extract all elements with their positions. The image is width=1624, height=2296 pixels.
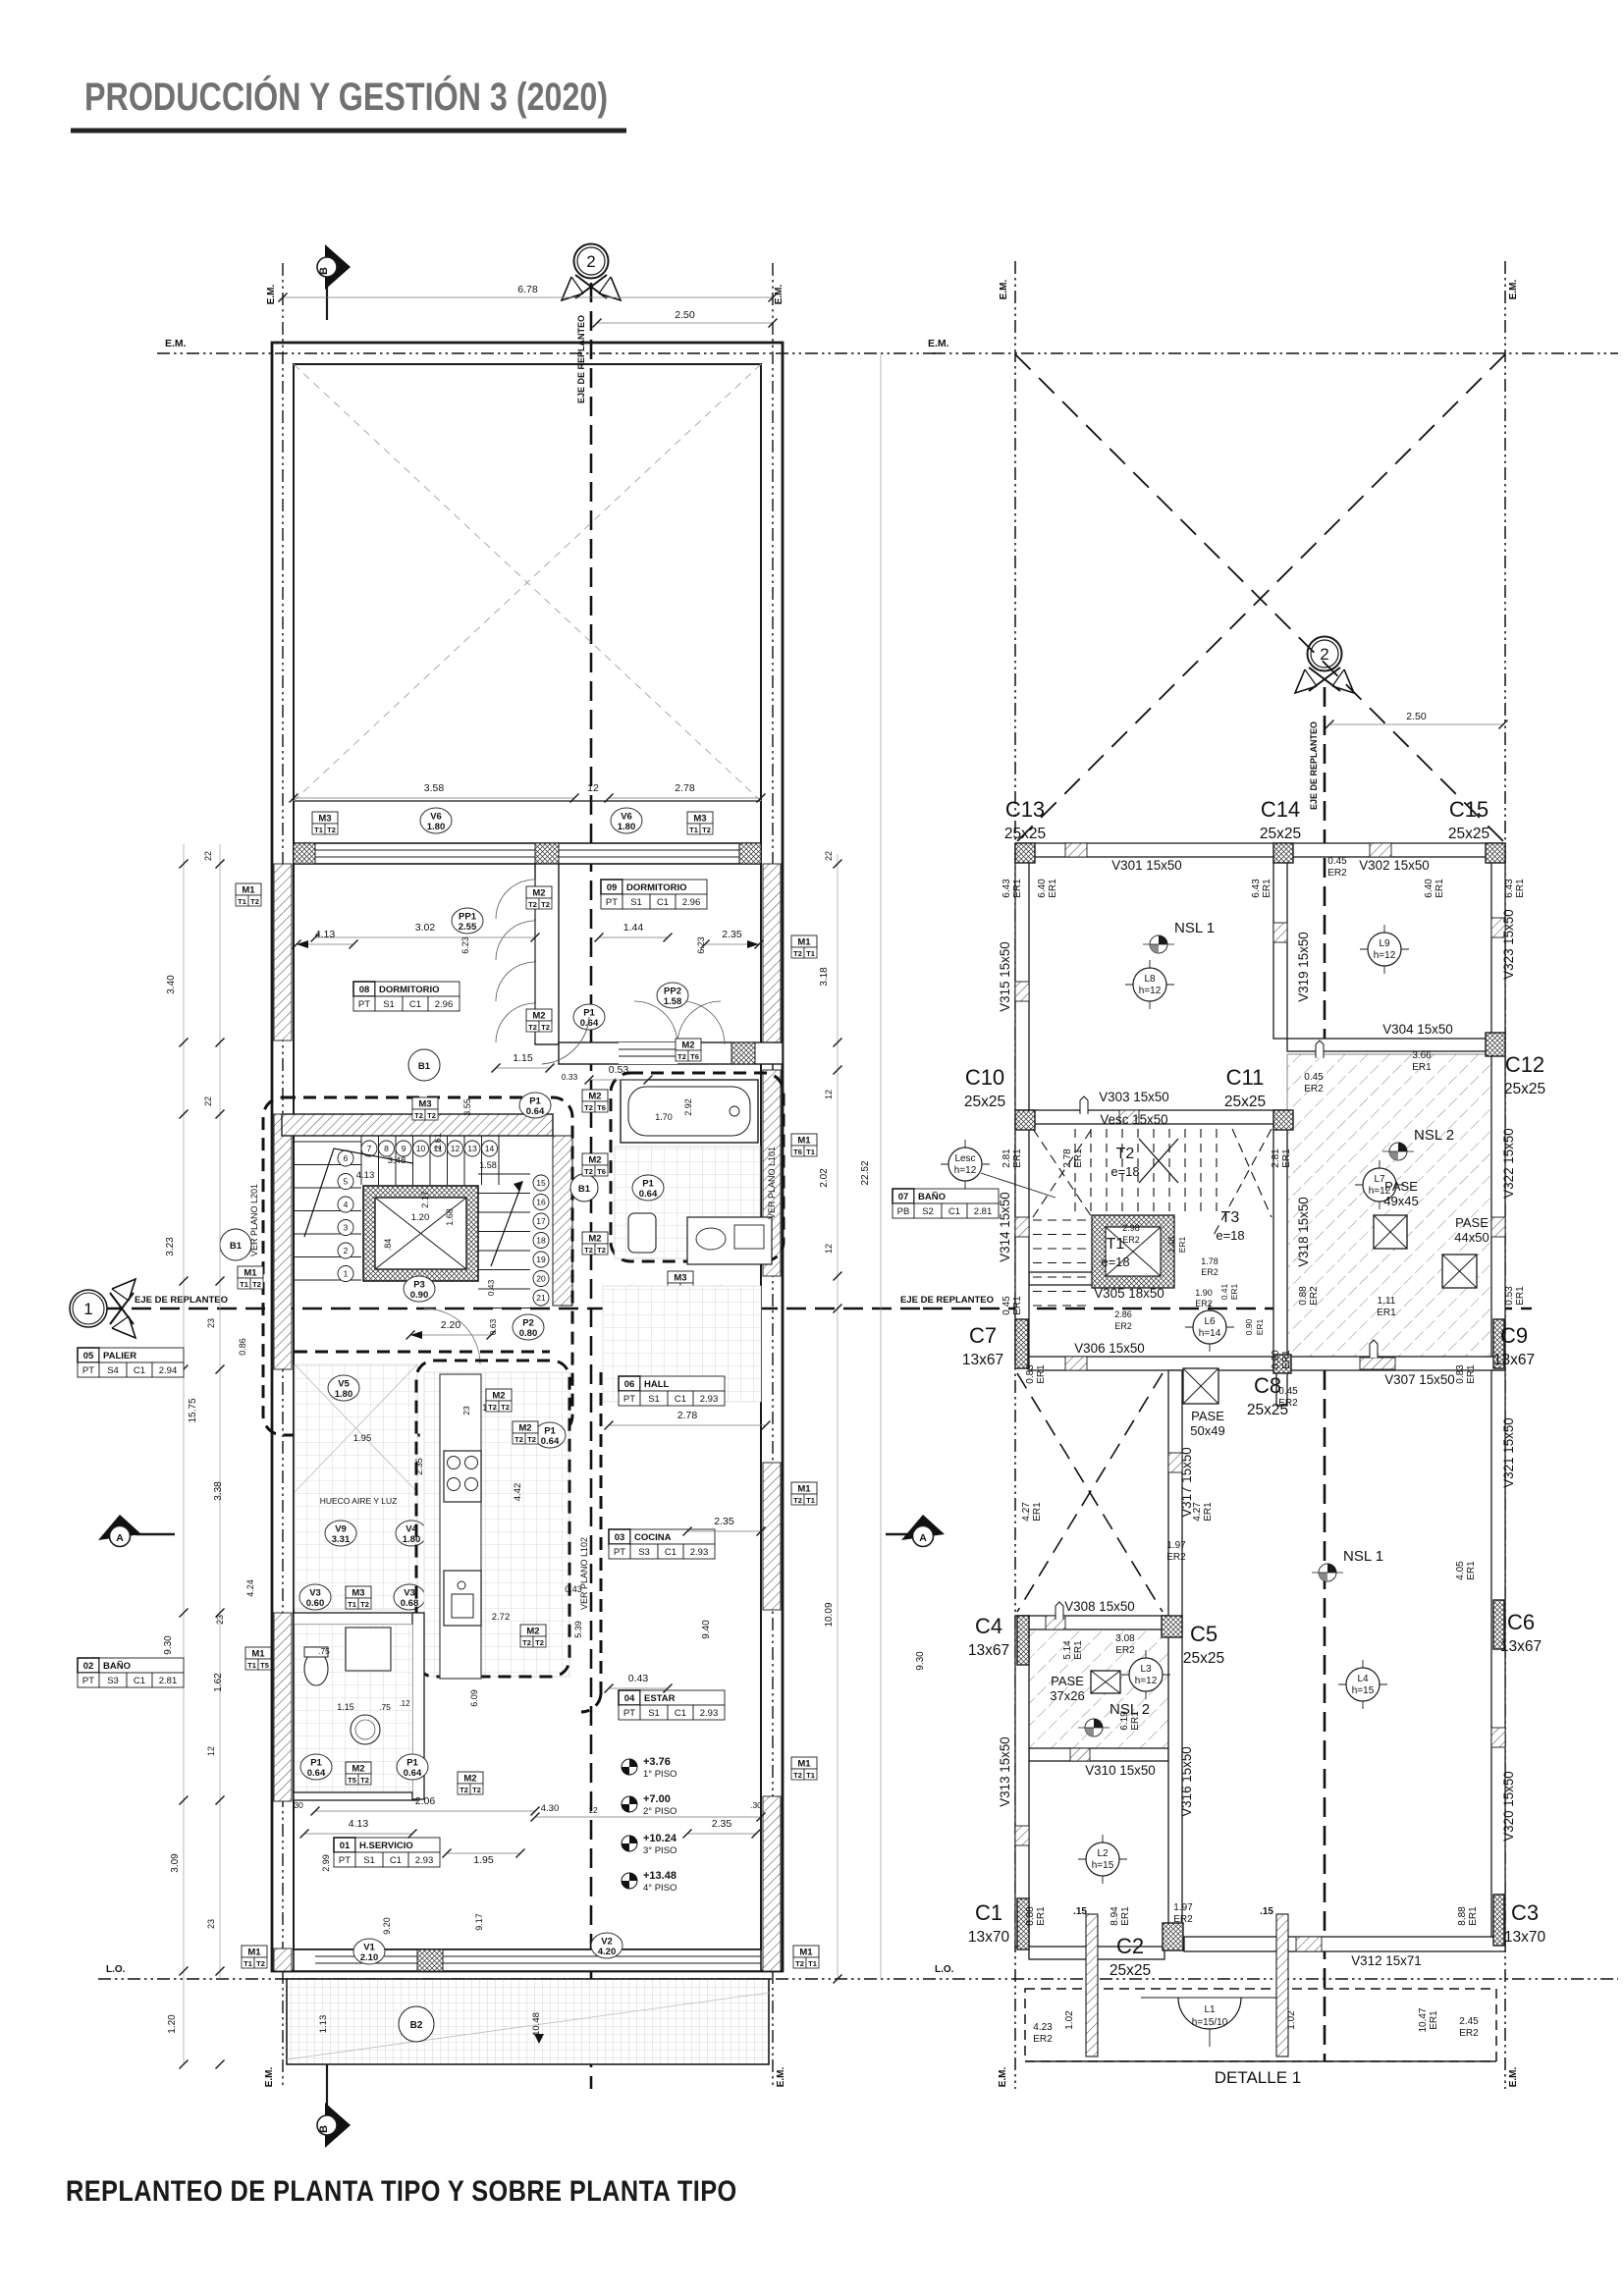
column C13 [1015, 843, 1035, 863]
svg-text:19: 19 [536, 1255, 546, 1264]
svg-text:3.08: 3.08 [1115, 1633, 1135, 1644]
column C7 [1015, 1319, 1028, 1368]
svg-text:S1: S1 [630, 897, 642, 908]
svg-text:E.M.: E.M. [776, 2067, 786, 2088]
svg-text:V314 15x50: V314 15x50 [998, 1192, 1012, 1261]
svg-text:T2: T2 [250, 897, 259, 906]
stair zone B1 dashed boundary [263, 1097, 572, 1435]
svg-text:2.86: 2.86 [1114, 1309, 1132, 1319]
svg-text:2.20: 2.20 [441, 1319, 461, 1331]
svg-text:13x67: 13x67 [1500, 1638, 1542, 1655]
svg-text:S1: S1 [648, 1708, 660, 1719]
svg-text:T2: T2 [414, 1111, 423, 1120]
svg-text:6.23: 6.23 [460, 936, 470, 954]
detail strip dashed box [1025, 1989, 1496, 2061]
svg-text:M1: M1 [797, 1759, 811, 1770]
svg-text:4.23: 4.23 [1033, 2022, 1053, 2033]
svg-text:3.58: 3.58 [424, 782, 445, 794]
column C15 [1486, 843, 1505, 863]
svg-text:1.20: 1.20 [167, 2014, 178, 2034]
svg-text:M1: M1 [797, 937, 811, 948]
svg-text:T1: T1 [247, 1661, 256, 1670]
svg-text:2° PISO: 2° PISO [643, 1806, 677, 1817]
beam C1-C2 bottom [1029, 1947, 1164, 1959]
svg-text:C11: C11 [1226, 1065, 1265, 1090]
svg-text:T6: T6 [793, 1148, 802, 1156]
slab L4 [1338, 1683, 1387, 1685]
column C9 [1493, 1319, 1504, 1368]
room 04 estar label [619, 1690, 725, 1720]
room 09 dormitorio label [601, 880, 707, 909]
svg-text:0.64: 0.64 [404, 1768, 422, 1779]
svg-text:V3: V3 [404, 1588, 415, 1599]
svg-text:0.45: 0.45 [1304, 1072, 1324, 1083]
svg-text:2.93: 2.93 [700, 1708, 719, 1719]
svg-text:S2: S2 [922, 1206, 934, 1217]
svg-text:Vesc 15x50: Vesc 15x50 [1100, 1112, 1167, 1127]
svg-text:DORMITORIO: DORMITORIO [379, 985, 440, 995]
svg-text:V2: V2 [601, 1937, 613, 1948]
svg-text:V302 15x50: V302 15x50 [1359, 858, 1429, 873]
door P3 [404, 1276, 435, 1302]
svg-text:13x67: 13x67 [962, 1352, 1003, 1368]
svg-text:12: 12 [206, 1746, 216, 1756]
svg-text:1° PISO: 1° PISO [643, 1769, 677, 1780]
svg-text:e=18: e=18 [1101, 1255, 1129, 1269]
svg-text:12: 12 [587, 782, 599, 794]
svg-text:V322 15x50: V322 15x50 [1501, 1128, 1516, 1198]
beam V321/V320 right [1491, 1370, 1505, 1937]
section flag B bottom [326, 2064, 328, 2106]
svg-text:ER2: ER2 [1327, 868, 1347, 879]
dim 4.13 [297, 943, 353, 945]
beam V310 [1029, 1748, 1168, 1761]
svg-text:M1: M1 [242, 885, 255, 896]
svg-text:1.15: 1.15 [513, 1052, 533, 1064]
svg-text:3.48: 3.48 [388, 1155, 406, 1166]
dim 2.20 [410, 1334, 491, 1336]
column in top wall left [294, 843, 315, 864]
svg-text:ER1: ER1 [1130, 1711, 1141, 1731]
room 01 h.servicio label [334, 1838, 440, 1867]
svg-text:e=18: e=18 [1216, 1228, 1244, 1243]
svg-text:Lesc: Lesc [954, 1153, 975, 1164]
svg-text:1: 1 [83, 1300, 92, 1318]
svg-text:C6: C6 [1507, 1610, 1535, 1634]
bath07 floor tiles [615, 1147, 760, 1258]
svg-text:B1: B1 [230, 1241, 243, 1252]
svg-text:h=12: h=12 [1139, 986, 1162, 996]
detail vertical bars [1086, 1914, 1098, 2056]
beam V312 [1184, 1937, 1505, 1951]
svg-text:04: 04 [624, 1693, 635, 1704]
bath sink counter [687, 1217, 772, 1264]
svg-text:T2: T2 [528, 1023, 537, 1032]
svg-text:1.58: 1.58 [664, 996, 682, 1007]
svg-text:V6: V6 [430, 812, 442, 823]
svg-text:ER1: ER1 [1073, 1640, 1084, 1660]
svg-text:S1: S1 [363, 1855, 375, 1866]
svg-text:V310 15x50: V310 15x50 [1085, 1763, 1155, 1778]
window V4 [396, 1521, 427, 1546]
svg-text:3.38: 3.38 [213, 1481, 224, 1501]
svg-text:.75: .75 [379, 1702, 391, 1712]
svg-text:V318 15x50: V318 15x50 [1296, 1197, 1311, 1266]
wall label M3 right [687, 812, 713, 824]
svg-text:E.M.: E.M. [1508, 2067, 1519, 2088]
svg-text:2.93: 2.93 [415, 1855, 434, 1866]
svg-text:3: 3 [344, 1223, 349, 1233]
dim 1.44 dorm09 [599, 936, 668, 938]
svg-text:6.19: 6.19 [1119, 1711, 1130, 1731]
svg-text:T1: T1 [314, 826, 323, 834]
svg-text:M2: M2 [532, 1011, 545, 1022]
svg-text:B: B [318, 267, 330, 275]
svg-text:6.09: 6.09 [469, 1689, 479, 1707]
patio X top right plan [1015, 354, 1505, 843]
svg-text:M2: M2 [492, 1391, 505, 1402]
stair right wall hatch [553, 1136, 572, 1306]
dim 3.58 [294, 797, 574, 799]
dim 3.02 dorm08 [315, 936, 535, 938]
svg-text:25x25: 25x25 [1260, 826, 1301, 842]
slab Lesc [941, 1163, 990, 1165]
svg-text:C1: C1 [948, 1206, 960, 1217]
svg-text:22.52: 22.52 [860, 1160, 871, 1185]
svg-text:V301 15x50: V301 15x50 [1111, 858, 1181, 873]
svg-text:T1: T1 [808, 1959, 817, 1968]
beam V323 right [1491, 857, 1505, 1039]
dim 2.50 top [597, 322, 773, 324]
closet PP2 label [657, 983, 688, 1008]
closet PP1 label [452, 908, 483, 934]
svg-text:M2: M2 [532, 888, 545, 899]
svg-text:T2: T2 [1116, 1146, 1135, 1162]
svg-text:10.09: 10.09 [824, 1602, 835, 1627]
svg-text:T2: T2 [256, 1959, 265, 1968]
svg-text:HUECO AIRE Y LUZ: HUECO AIRE Y LUZ [320, 1496, 398, 1506]
svg-text:PT: PT [82, 1365, 94, 1376]
svg-text:0.60: 0.60 [306, 1598, 325, 1609]
door P1 hall [534, 1422, 566, 1448]
svg-text:4.20: 4.20 [598, 1947, 617, 1957]
svg-text:3.23: 3.23 [165, 1237, 176, 1256]
bathtub [621, 1080, 758, 1143]
pase 44x50 [1442, 1255, 1477, 1288]
svg-text:.75: .75 [318, 1646, 330, 1656]
bath 02 tiles [295, 1625, 412, 1791]
svg-text:T1: T1 [348, 1600, 356, 1609]
svg-text:5: 5 [344, 1177, 349, 1187]
svg-text:ER1: ER1 [1012, 1148, 1023, 1168]
svg-text:C1: C1 [390, 1855, 402, 1866]
door P1 serv [397, 1754, 428, 1780]
slab L3 [1121, 1674, 1170, 1676]
svg-text:1.80: 1.80 [335, 1389, 353, 1400]
svg-text:h=12: h=12 [1374, 950, 1396, 961]
svg-text:2.78: 2.78 [677, 1410, 698, 1421]
svg-text:E.M.: E.M. [999, 280, 1009, 300]
svg-text:L1: L1 [1204, 2004, 1216, 2015]
svg-text:13x67: 13x67 [968, 1642, 1009, 1659]
closet PP1 door arcs [496, 880, 535, 919]
svg-text:PP1: PP1 [459, 912, 477, 923]
svg-text:T2: T2 [488, 1403, 497, 1412]
svg-text:T3: T3 [1221, 1209, 1240, 1226]
svg-text:PT: PT [614, 1547, 625, 1558]
svg-text:2.78: 2.78 [675, 782, 695, 794]
svg-text:+13.48: +13.48 [643, 1870, 677, 1882]
svg-text:PASE: PASE [1455, 1215, 1489, 1230]
svg-text:C8: C8 [1254, 1373, 1281, 1398]
svg-text:9.17: 9.17 [474, 1913, 484, 1931]
svg-text:6.40: 6.40 [1424, 879, 1435, 898]
svg-text:3.40: 3.40 [166, 975, 177, 994]
room 08 dormitorio label [353, 982, 460, 1011]
svg-text:6.43: 6.43 [1251, 879, 1262, 898]
svg-text:EJE DE REPLANTEO: EJE DE REPLANTEO [135, 1295, 228, 1306]
svg-text:2: 2 [586, 252, 595, 271]
column in top wall mid [535, 843, 559, 864]
section marker A left [135, 1533, 175, 1535]
svg-text:T2: T2 [793, 1771, 802, 1780]
beam V305 [1029, 1272, 1168, 1285]
hall floor tiles [603, 1286, 761, 1402]
svg-text:02: 02 [83, 1661, 94, 1672]
svg-text:0.86: 0.86 [238, 1338, 247, 1356]
svg-text:ER1: ER1 [1177, 1236, 1187, 1253]
svg-text:ER1: ER1 [1073, 1148, 1084, 1168]
beam stub notches [1370, 1340, 1378, 1358]
svg-text:4.05: 4.05 [1455, 1561, 1466, 1580]
dim 2.78 [609, 797, 761, 799]
svg-text:M3: M3 [318, 814, 331, 825]
svg-text:4.27: 4.27 [1192, 1502, 1203, 1522]
svg-text:1.97: 1.97 [1166, 1540, 1186, 1551]
patio interior (terraza) [294, 800, 761, 802]
svg-text:L6: L6 [1204, 1316, 1216, 1327]
svg-text:2.78: 2.78 [1062, 1148, 1073, 1168]
svg-text:V315 15x50: V315 15x50 [998, 941, 1012, 1011]
svg-text:0.64: 0.64 [580, 1018, 599, 1029]
column C8 [1273, 1355, 1291, 1373]
bathroom 07 zone dashed boundary [611, 1073, 784, 1261]
left wall hatch segments [274, 864, 292, 1041]
svg-text:ER1: ER1 [1036, 1906, 1047, 1926]
beam V313 left [1015, 1616, 1029, 1947]
svg-text:3.31: 3.31 [332, 1534, 351, 1545]
svg-text:09: 09 [607, 882, 618, 893]
axis eje de replanteo vertical left plan [590, 283, 593, 2089]
svg-text:1.68: 1.68 [445, 1208, 455, 1226]
svg-text:ER1: ER1 [1466, 1561, 1477, 1580]
svg-text:50x49: 50x49 [1190, 1423, 1224, 1438]
window V6 glazing left [315, 849, 535, 851]
svg-text:ER2: ER2 [1278, 1398, 1298, 1409]
dim 2.35 [705, 943, 759, 945]
svg-text:E.M.: E.M. [998, 2067, 1008, 2088]
svg-text:M2: M2 [588, 1155, 601, 1166]
svg-text:T2: T2 [584, 1246, 593, 1255]
svg-text:08: 08 [359, 985, 370, 995]
svg-text:PASE: PASE [1191, 1409, 1224, 1423]
beam V303/Vesc [1029, 1110, 1287, 1124]
door P1 dorm09 [573, 1004, 605, 1030]
palier floor tiles [295, 1364, 417, 1610]
room 03 cocina label [609, 1529, 715, 1559]
svg-text:25x25: 25x25 [1110, 1962, 1151, 1979]
dim 2.06 [315, 1810, 535, 1812]
svg-text:ER1: ER1 [1281, 1350, 1292, 1369]
marker station 2 right plan [1295, 667, 1354, 693]
svg-text:V319 15x50: V319 15x50 [1296, 932, 1311, 1001]
door P2 [513, 1314, 544, 1340]
svg-text:COCINA: COCINA [634, 1532, 672, 1543]
pase 50x49 [1183, 1368, 1218, 1404]
pase 49x45 [1374, 1215, 1407, 1249]
svg-text:C10: C10 [965, 1065, 1004, 1090]
svg-text:L.O.: L.O. [106, 1964, 126, 1975]
svg-text:05: 05 [83, 1351, 94, 1362]
svg-text:C1: C1 [975, 1900, 1002, 1925]
svg-text:ER1: ER1 [1377, 1308, 1396, 1318]
svg-text:1.70: 1.70 [655, 1112, 673, 1122]
svg-text:B1: B1 [418, 1061, 431, 1072]
svg-text:4: 4 [344, 1200, 349, 1209]
svg-text:T2: T2 [541, 900, 550, 909]
svg-text:0.33: 0.33 [562, 1072, 578, 1082]
svg-text:T5: T5 [348, 1776, 356, 1785]
svg-text:1.80: 1.80 [618, 822, 636, 832]
svg-text:2.61: 2.61 [433, 1133, 443, 1150]
stair core hatched [1092, 1215, 1174, 1288]
stair direction arrows [304, 1148, 412, 1237]
svg-text:25x25: 25x25 [1504, 1081, 1545, 1097]
wall label M3 left [312, 812, 338, 824]
room 06 hall label [619, 1376, 725, 1406]
svg-text:h=12: h=12 [1135, 1676, 1158, 1686]
svg-text:P1: P1 [583, 1008, 595, 1019]
wall between dorm 08 closet and dorm 09 [535, 864, 559, 1044]
section flag B top [326, 283, 328, 320]
svg-text:T1: T1 [240, 1280, 248, 1289]
svg-text:12: 12 [588, 1805, 598, 1815]
svg-text:ER2: ER2 [1114, 1321, 1132, 1331]
window label V6 left [420, 808, 452, 833]
svg-text:M2: M2 [526, 1627, 539, 1637]
slab hatch region right (NSL2 upper) [1287, 1054, 1491, 1358]
svg-text:9.20: 9.20 [382, 1917, 392, 1935]
svg-text:+3.76: +3.76 [643, 1756, 671, 1768]
svg-text:8.88: 8.88 [1457, 1906, 1468, 1926]
svg-text:h=15: h=15 [1352, 1685, 1375, 1696]
svg-text:5.14: 5.14 [1062, 1640, 1073, 1660]
svg-text:M2: M2 [588, 1092, 601, 1102]
door P1 palier [517, 1389, 549, 1415]
column C3 [1493, 1895, 1504, 1946]
slab L9 [1360, 948, 1409, 950]
svg-text:V312 15x71: V312 15x71 [1351, 1953, 1421, 1968]
svg-text:ER1: ER1 [1466, 1364, 1477, 1384]
svg-text:S3: S3 [107, 1676, 119, 1686]
svg-text:.30: .30 [292, 1800, 303, 1810]
svg-text:1.15: 1.15 [337, 1702, 354, 1712]
svg-text:0.90: 0.90 [410, 1290, 429, 1301]
pase 37x26 [1091, 1671, 1120, 1693]
svg-text:ER2: ER2 [1195, 1299, 1213, 1308]
svg-text:S4: S4 [107, 1365, 119, 1376]
svg-text:PT: PT [606, 897, 618, 908]
svg-text:2.55: 2.55 [459, 922, 477, 933]
svg-text:ER2: ER2 [1122, 1235, 1140, 1245]
svg-text:T2: T2 [327, 826, 336, 834]
svg-text:M2: M2 [588, 1234, 601, 1245]
svg-text:T2: T2 [793, 949, 802, 958]
svg-text:PRODUCCIÓN Y GESTIÓN 3 (2020): PRODUCCIÓN Y GESTIÓN 3 (2020) [84, 74, 608, 119]
svg-text:0.45: 0.45 [1278, 1386, 1298, 1397]
svg-text:T2: T2 [535, 1638, 544, 1647]
PP2 closet arcs dorm09 [634, 1001, 677, 1044]
axis eje de replanteo vertical right plan [1324, 687, 1326, 2061]
svg-text:6.78: 6.78 [517, 284, 538, 295]
svg-text:V5: V5 [338, 1379, 350, 1390]
svg-text:P3: P3 [413, 1280, 425, 1291]
svg-text:1.62: 1.62 [213, 1673, 224, 1692]
svg-text:S3: S3 [638, 1547, 650, 1558]
svg-text:ER1: ER1 [1036, 1364, 1047, 1384]
svg-text:ER2: ER2 [1201, 1267, 1218, 1277]
svg-text:VER PLANO L102: VER PLANO L102 [579, 1537, 589, 1610]
svg-text:V9: V9 [335, 1524, 347, 1535]
svg-text:PT: PT [339, 1855, 351, 1866]
svg-text:C15: C15 [1449, 797, 1489, 822]
svg-text:25x25: 25x25 [964, 1094, 1005, 1110]
svg-text:M1: M1 [251, 1649, 265, 1660]
svg-text:T2: T2 [584, 1103, 593, 1112]
svg-text:3.02: 3.02 [415, 922, 436, 934]
svg-text:07: 07 [898, 1192, 909, 1202]
svg-text:17: 17 [536, 1216, 546, 1226]
svg-text:T1: T1 [806, 1148, 815, 1156]
svg-text:ER1: ER1 [1412, 1062, 1432, 1073]
svg-text:NSL 1: NSL 1 [1174, 920, 1215, 936]
svg-text:13x67: 13x67 [1493, 1352, 1535, 1368]
svg-text:M1: M1 [797, 1136, 811, 1147]
svg-text:0.90: 0.90 [1244, 1318, 1254, 1335]
axis E.M. top-right horizontal [933, 352, 1618, 354]
column C2 [1163, 1923, 1183, 1950]
beam V306/V307 [1029, 1357, 1505, 1370]
svg-text:22: 22 [203, 1096, 213, 1106]
slab L1 half circle [1141, 1997, 1278, 1999]
axis L.O. bottom-right horizontal [923, 1978, 1618, 1980]
svg-text:3.55: 3.55 [462, 1098, 472, 1116]
svg-text:T1: T1 [806, 949, 815, 958]
svg-text:EJE DE REPLANTEO: EJE DE REPLANTEO [576, 315, 586, 403]
beam V314 left [1015, 1124, 1029, 1357]
svg-text:T2: T2 [427, 1111, 436, 1120]
svg-text:T1: T1 [238, 897, 246, 906]
svg-text:1: 1 [344, 1269, 349, 1279]
svg-text:T2: T2 [584, 1167, 593, 1176]
left margin dim chain [183, 844, 185, 2064]
svg-text:1.95: 1.95 [473, 1854, 494, 1866]
section marker A right [886, 1533, 923, 1535]
svg-text:2: 2 [1320, 645, 1328, 664]
svg-text:PT: PT [623, 1394, 635, 1405]
svg-text:NSL 1: NSL 1 [1343, 1548, 1383, 1565]
svg-text:1.95: 1.95 [353, 1433, 372, 1444]
